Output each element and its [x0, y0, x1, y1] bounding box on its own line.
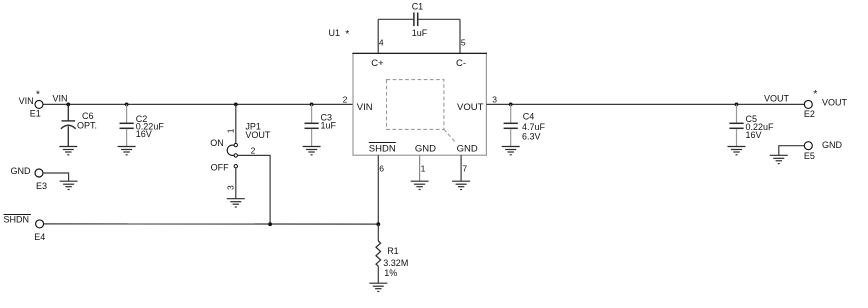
svg-text:E3: E3 [36, 181, 47, 191]
svg-text:E1: E1 [30, 109, 41, 119]
node junction JP1 [234, 103, 238, 107]
wire JP1 pin2 to SHDN rail [238, 155, 270, 224]
jumper JP1 [210, 104, 271, 190]
wire pin 4 [377, 19, 379, 53]
wire pin 7 [460, 155, 462, 181]
svg-text:16V: 16V [136, 129, 152, 139]
ground C3 [303, 147, 321, 155]
svg-text:16V: 16V [746, 130, 762, 140]
svg-text:1uF: 1uF [321, 120, 337, 130]
svg-text:SHDN: SHDN [4, 215, 30, 225]
terminal E1 VIN [19, 88, 43, 118]
svg-text:3.32M: 3.32M [383, 258, 408, 268]
ground E3 [60, 181, 78, 189]
ground C4 [502, 147, 520, 155]
svg-text:5: 5 [461, 37, 466, 47]
svg-text:4: 4 [379, 37, 384, 47]
svg-text:C4: C4 [523, 111, 535, 121]
resistor R1 [376, 224, 408, 283]
terminal E4 SHDN [4, 215, 46, 243]
svg-text:*: * [345, 28, 349, 40]
svg-text:GND: GND [11, 166, 32, 176]
terminal E5 GND [804, 140, 843, 161]
ground C6 [59, 147, 77, 155]
svg-text:OFF: OFF [211, 162, 229, 172]
ground pin 7 [452, 181, 470, 189]
node junction C3 [310, 103, 314, 107]
svg-text:E4: E4 [34, 232, 45, 242]
terminal E3 GND [11, 166, 48, 191]
svg-text:E5: E5 [804, 151, 815, 161]
svg-text:R1: R1 [387, 246, 399, 256]
node junction R1 [376, 222, 380, 226]
svg-text:6.3V: 6.3V [522, 132, 541, 142]
svg-text:*: * [813, 88, 817, 100]
svg-text:C1: C1 [412, 2, 424, 12]
svg-text:E2: E2 [804, 109, 815, 119]
wire SHDN rail [44, 223, 379, 225]
node junction C2 [125, 103, 129, 107]
ground E5 [770, 155, 788, 163]
svg-text:VOUT: VOUT [822, 98, 848, 108]
ground R1 [369, 283, 387, 291]
svg-text:VOUT: VOUT [457, 102, 484, 113]
ground C2 [118, 147, 136, 155]
ground JP1 [227, 199, 245, 207]
svg-text:GND: GND [822, 140, 843, 150]
capacitor C6 [61, 104, 97, 146]
svg-text:VOUT: VOUT [764, 94, 790, 104]
svg-text:4.7uF: 4.7uF [522, 122, 546, 132]
node junction C5 [735, 103, 739, 107]
svg-text:3: 3 [225, 185, 235, 190]
svg-text:GND: GND [457, 143, 478, 154]
capacitor C3 [305, 104, 337, 146]
svg-text:GND: GND [415, 143, 436, 154]
wire VIN rail [43, 103, 353, 105]
svg-text:1: 1 [421, 163, 426, 173]
node junction pin2 wire [268, 222, 272, 226]
node junction C6 [66, 103, 70, 107]
svg-text:1uF: 1uF [412, 28, 428, 38]
svg-text:VIN: VIN [53, 94, 68, 104]
capacitor C4 [504, 104, 546, 146]
wire JP1 pin3 to ground [235, 168, 237, 199]
svg-text:VOUT: VOUT [245, 130, 271, 140]
svg-text:VIN: VIN [357, 102, 373, 113]
svg-text:7: 7 [462, 163, 467, 173]
svg-text:U1: U1 [329, 28, 341, 38]
U1 dashed pad box [387, 80, 456, 142]
svg-text:1%: 1% [384, 268, 397, 278]
svg-text:1: 1 [225, 128, 235, 133]
svg-text:C+: C+ [371, 58, 384, 69]
wire VOUT rail [486, 103, 804, 105]
wire pin 6 [377, 155, 379, 224]
svg-text:SHDN: SHDN [369, 143, 396, 154]
node junction C4 [509, 103, 513, 107]
wire E5 to ground [779, 146, 804, 156]
wire pin 1 [419, 155, 421, 181]
svg-text:C-: C- [456, 58, 466, 69]
capacitor C5 [729, 104, 774, 146]
op-amp U1 (IC box) [329, 28, 488, 155]
svg-text:VIN: VIN [19, 96, 34, 106]
terminal E2 VOUT [804, 88, 848, 119]
svg-text:C6: C6 [82, 111, 94, 121]
ground pin 1 [411, 181, 429, 189]
capacitor C2 [120, 104, 165, 146]
ground C5 [728, 147, 746, 155]
wire E3 to ground [43, 173, 68, 181]
svg-text:6: 6 [379, 163, 384, 173]
svg-text:2: 2 [251, 146, 256, 156]
svg-text:*: * [36, 88, 40, 100]
capacitor C1 [378, 2, 460, 38]
svg-text:OPT.: OPT. [77, 121, 97, 131]
svg-text:2: 2 [343, 94, 348, 104]
wire pin 5 [459, 19, 461, 53]
svg-text:ON: ON [210, 138, 224, 148]
svg-text:3: 3 [492, 94, 497, 104]
